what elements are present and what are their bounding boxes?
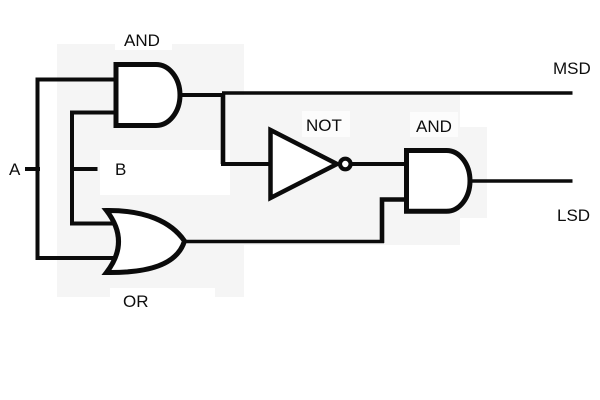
wire AND2 output LSD line (469, 179, 573, 183)
svg-text:NOT: NOT (306, 116, 342, 135)
svg-text:B: B (115, 160, 126, 179)
wire branch down to NOT input (221, 94, 226, 165)
svg-text:AND: AND (124, 31, 160, 50)
wire MSD line (222, 91, 573, 95)
wire from node A to AND1 top input and OR bottom input (38, 80, 118, 259)
NOT gate U3 (271, 130, 351, 198)
node A input stub (25, 167, 40, 171)
wire OR output (184, 240, 384, 244)
OR gate U2 (107, 210, 185, 272)
node B stub (72, 167, 98, 171)
svg-text:OR: OR (123, 292, 149, 311)
svg-text:A: A (9, 160, 21, 179)
AND gate U4 (407, 151, 471, 212)
wire AND1 output (179, 93, 224, 97)
wire NOT output to AND2 (350, 162, 408, 166)
wire node B branch to AND1 bottom input and OR top input (72, 113, 118, 224)
svg-text:LSD: LSD (557, 206, 590, 225)
svg-text:AND: AND (416, 117, 452, 136)
wire NOT input (221, 162, 272, 166)
svg-text:MSD: MSD (553, 59, 591, 78)
AND gate U1 (116, 65, 180, 126)
wire up to AND2 bottom input (382, 200, 408, 244)
